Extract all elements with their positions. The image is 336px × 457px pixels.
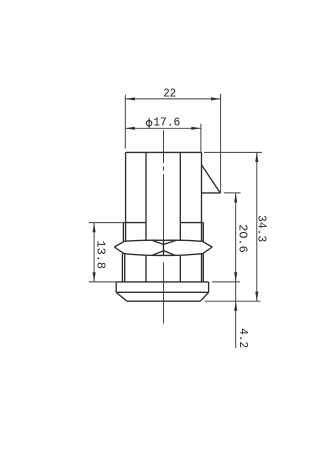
flange right edge bbox=[208, 282, 210, 293]
diameter symbol phi bbox=[146, 118, 152, 129]
step edge at right bbox=[202, 192, 221, 194]
hex center chamfer lower triangle bbox=[152, 251, 175, 256]
hex lens top boundary bbox=[114, 240, 212, 247]
hex flat edge upper right bbox=[202, 223, 204, 242]
flange left edge bbox=[115, 282, 117, 293]
flange bottom edge bbox=[127, 300, 200, 302]
hex top edge left bbox=[123, 222, 146, 224]
flange top edge bbox=[116, 281, 208, 283]
svg-text:17.6: 17.6 bbox=[153, 115, 180, 129]
dimension line 22 bbox=[125, 98, 220, 100]
flange inner line bbox=[116, 291, 208, 293]
hex flat edge lower left pair bbox=[122, 254, 124, 282]
extension line 34.3 top bbox=[204, 151, 262, 153]
arrow phi17.6 left bbox=[125, 127, 135, 130]
hex center corner edge bbox=[163, 240, 165, 255]
arrow 4.2 up bbox=[234, 301, 237, 311]
arrow 34.3 bottom bbox=[255, 292, 258, 302]
arrow 34.3 top bbox=[255, 152, 258, 162]
extension line 20.6 top bbox=[224, 192, 241, 194]
chamfer diagonal top right bbox=[202, 165, 220, 193]
dimension line 20.6 and 4.2 bbox=[235, 193, 237, 348]
hex lens bottom boundary bbox=[114, 247, 212, 255]
extension line 22 right bbox=[220, 94, 222, 193]
dimension line 34.3 bbox=[256, 152, 258, 301]
hex flat edge upper left bbox=[122, 223, 124, 242]
svg-text:22: 22 bbox=[163, 87, 176, 101]
dimension line 13.8 bbox=[93, 223, 95, 282]
arrow 13.8 top bbox=[93, 223, 96, 233]
arrow phi17.6 right bbox=[191, 127, 201, 130]
centerline bbox=[163, 130, 165, 323]
dimension line phi17.6 bbox=[125, 127, 201, 129]
flange chamfer right bbox=[200, 292, 208, 301]
body left edge bbox=[125, 152, 127, 240]
hex flat edge lower right pair bbox=[202, 253, 204, 282]
arrow 20.6 top bbox=[234, 193, 237, 203]
hex center chamfer upper triangle bbox=[152, 240, 176, 244]
arrow 20.6 bottom bbox=[234, 272, 237, 282]
body top edge bbox=[126, 151, 202, 153]
extension line 34.3 bottom bbox=[205, 300, 261, 302]
extension line 22 left bbox=[124, 95, 126, 149]
extension line 13.8 bottom bbox=[89, 281, 116, 283]
hex top edge right bbox=[180, 222, 203, 224]
svg-text:4.2: 4.2 bbox=[236, 328, 250, 348]
extension line flange top right bbox=[212, 281, 240, 283]
inner tube right line bbox=[179, 152, 181, 282]
body right edge bbox=[201, 152, 203, 241]
extension line 13.8 top bbox=[89, 222, 124, 224]
svg-text:34.3: 34.3 bbox=[254, 215, 268, 242]
svg-text:13.8: 13.8 bbox=[94, 240, 108, 269]
flange chamfer left bbox=[116, 292, 127, 301]
extension line phi17.6 right bbox=[200, 124, 202, 152]
svg-text:2O.6: 2O.6 bbox=[235, 224, 249, 252]
arrow 22 right bbox=[211, 97, 221, 100]
arrow 13.8 bottom bbox=[93, 272, 96, 282]
inner tube left line bbox=[145, 152, 147, 282]
arrow 22 left bbox=[125, 97, 135, 100]
